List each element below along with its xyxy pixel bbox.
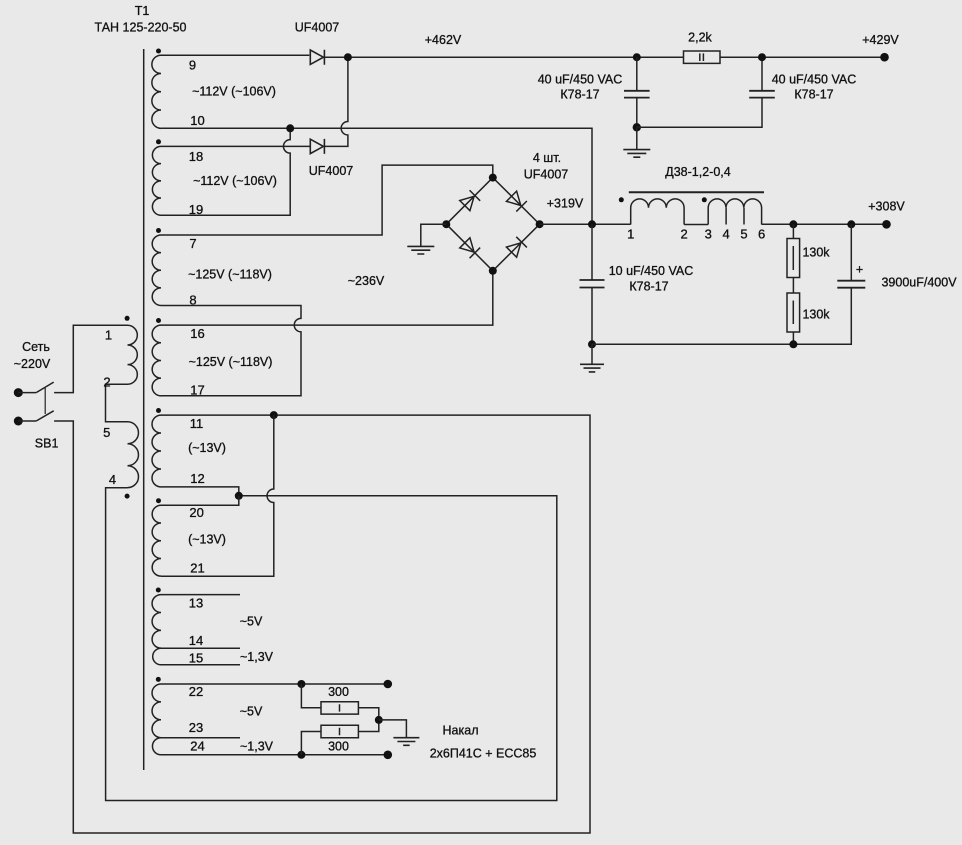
svg-text:~220V: ~220V (14, 357, 51, 371)
svg-text:19: 19 (189, 202, 203, 217)
wire tap 20 up to node B (161, 496, 239, 506)
winding 11-12 (152, 415, 161, 487)
wire tap 9 to diode D1 (161, 54, 309, 56)
wire R300-1 left lead (301, 684, 321, 708)
svg-text:~1,3V: ~1,3V (240, 739, 274, 753)
winding 18 polarity dot (156, 139, 161, 144)
svg-text:+: + (856, 262, 863, 276)
wire mains L1 lead (18, 392, 36, 394)
svg-text:6: 6 (758, 226, 765, 241)
choke winding 1-2 (631, 199, 684, 225)
wire tap 16 to bridge AC bottom (161, 271, 493, 325)
wire D1 cathode to +462V node (324, 56, 348, 58)
svg-text:~5V: ~5V (240, 615, 263, 629)
switch SB1 pole A blade (36, 382, 54, 393)
svg-text:+462V: +462V (425, 33, 462, 47)
wire tap 22 heater line (161, 683, 388, 685)
bridge node bottom (489, 267, 497, 275)
ground at 40uF caps (623, 150, 650, 158)
wire bottom rail ground stem (591, 344, 593, 364)
node +462V D1/D2 junction (344, 53, 352, 61)
svg-text:(~13V): (~13V) (188, 533, 226, 547)
node +319V junction (588, 220, 596, 228)
capacitor 10uF/450VAC K78-17 (580, 280, 605, 288)
ground at heater (393, 738, 419, 746)
svg-text:Сеть: Сеть (22, 340, 50, 354)
svg-text:7: 7 (189, 236, 196, 251)
ground at bottom rail (580, 364, 604, 372)
wire 130k chain bottom lead (792, 332, 794, 344)
primary winding 5-4 (128, 422, 139, 488)
node tap10/tap19 junction (286, 124, 294, 132)
capacitor 40uF/450VAC K78-17 left (624, 91, 650, 98)
winding 16-17 (152, 325, 161, 396)
svg-text:13: 13 (189, 595, 203, 610)
wire switch A to primary pin 1 (54, 325, 127, 392)
node +308V at 3900uF (847, 220, 855, 228)
node A winding 11 top junction (270, 411, 278, 419)
svg-text:2: 2 (103, 374, 110, 389)
svg-text:40 uF/450 VAC: 40 uF/450 VAC (538, 72, 623, 86)
node +308V at 130k (789, 220, 797, 228)
svg-text:16: 16 (190, 326, 204, 341)
svg-text:300: 300 (328, 739, 349, 753)
svg-text:22: 22 (189, 684, 203, 699)
svg-text:2: 2 (680, 226, 687, 241)
mains terminal L2 (14, 417, 23, 426)
winding 16 polarity dot (156, 318, 161, 323)
winding 13 polarity dot (156, 588, 161, 593)
bridge diode upper-right (506, 191, 527, 212)
node heater bottom at R 300 (297, 751, 305, 759)
wire tap 18 to diode D2 anode (161, 145, 310, 147)
svg-text:~125V (~118V): ~125V (~118V) (189, 355, 273, 369)
wire bridge left to ground (421, 224, 447, 246)
svg-text:5: 5 (740, 226, 747, 241)
svg-text:8: 8 (189, 292, 196, 307)
capacitor 40uF/450VAC K78-17 right (749, 91, 775, 98)
wire choke pin 2 to pin 3 (684, 224, 708, 226)
terminal +429V (880, 53, 889, 62)
node cap ground rail (633, 123, 641, 131)
ground at bridge DC- (407, 246, 434, 254)
svg-text:130k: 130k (802, 307, 830, 321)
resistor 130k upper (787, 239, 800, 278)
wire D2 cathode up to +462V node (with hop) (324, 57, 348, 146)
svg-text:130k: 130k (802, 245, 830, 259)
svg-text:SB1: SB1 (35, 437, 59, 451)
svg-text:3: 3 (705, 226, 712, 241)
winding 13-14 (152, 595, 161, 649)
svg-text:+429V: +429V (862, 33, 899, 47)
svg-text:9: 9 (189, 57, 196, 72)
svg-text:4 шт.: 4 шт. (533, 151, 561, 165)
svg-text:300: 300 (328, 685, 349, 699)
node heater top at R 300 (297, 680, 305, 688)
wire C2 top lead (761, 57, 763, 91)
wire cap ground rail to C2 (637, 98, 762, 128)
terminal heater top (384, 680, 393, 689)
svg-text:3900uF/400V: 3900uF/400V (881, 276, 957, 290)
node bottom rail left (588, 340, 596, 348)
svg-text:Д38-1,2-0,4: Д38-1,2-0,4 (665, 165, 730, 179)
choke polarity dot 1 (619, 197, 624, 202)
svg-text:T1: T1 (135, 4, 150, 18)
winding 7-8 (152, 235, 161, 305)
node +462V at C1 (633, 53, 641, 61)
svg-text:21: 21 (190, 560, 204, 575)
svg-text:ТАН 125-220-50: ТАН 125-220-50 (95, 20, 187, 34)
bridge rectifier diamond (446, 178, 539, 271)
wire C1 bottom lead (636, 98, 638, 128)
winding 11 polarity dot (156, 408, 161, 413)
resistor 300 upper (321, 702, 358, 714)
wire tap 19 up to tap 10 junction (with hop) (161, 128, 290, 215)
wire tap 24 heater line (161, 754, 388, 756)
svg-text:12: 12 (190, 471, 204, 486)
capacitor 3900uF/400V (837, 281, 865, 288)
wire C 10uF to bottom rail (591, 288, 593, 345)
wire mains L2 lead (18, 420, 36, 422)
svg-text:К78-17: К78-17 (629, 280, 668, 294)
svg-text:10 uF/450 VAC: 10 uF/450 VAC (609, 264, 694, 278)
wire +462V/+429V rail right of R 2,2k (720, 56, 885, 58)
bridge diode lower-left (460, 238, 481, 259)
winding 22 polarity dot (156, 677, 161, 682)
svg-text:2х6П41С + ЕСС85: 2х6П41С + ЕСС85 (430, 747, 537, 761)
winding 9 polarity dot (156, 49, 161, 54)
transformer T1 core (143, 49, 145, 770)
svg-text:14: 14 (189, 633, 203, 648)
svg-text:~5V: ~5V (240, 705, 263, 719)
svg-text:17: 17 (190, 382, 204, 397)
wire C1 top lead (636, 57, 638, 91)
wire R300-1 right lead (358, 708, 378, 720)
svg-text:24: 24 (190, 739, 204, 754)
svg-text:18: 18 (189, 149, 203, 164)
wire tap 12 down to node B (161, 487, 239, 496)
choke D38-1,2-0,4 core bar (629, 191, 764, 193)
choke winding 3-6 (708, 199, 761, 225)
wire +319V rail to choke pin 1 (540, 223, 631, 225)
resistor 300 lower (321, 725, 358, 737)
wire heater center to ground (379, 720, 407, 738)
wire tap 2 to tap 5 jog (106, 384, 128, 422)
svg-text:~236V: ~236V (348, 274, 385, 288)
winding 23-24 (152, 738, 161, 755)
bridge diode lower-right (506, 237, 527, 258)
wire bottom rail to 3900uF (592, 288, 851, 345)
node B 12-20 junction (235, 492, 243, 500)
bridge node left (DC-) (442, 220, 450, 228)
svg-text:UF4007: UF4007 (295, 20, 340, 34)
svg-text:UF4007: UF4007 (524, 167, 569, 181)
svg-text:2,2k: 2,2k (688, 30, 712, 44)
diode D1 UF4007 (310, 50, 324, 65)
winding 20 polarity dot (156, 498, 161, 503)
winding 22-23 (152, 684, 161, 738)
svg-text:Накал: Накал (443, 724, 479, 738)
svg-text:+308V: +308V (868, 200, 905, 214)
wire tap 21 up to node A (with hop) (161, 415, 274, 576)
primary winding 1-2 (128, 325, 138, 384)
svg-text:4: 4 (109, 472, 116, 487)
svg-text:+319V: +319V (547, 196, 584, 210)
resistor 2,2k (684, 51, 721, 63)
node +429V at C2 (758, 53, 766, 61)
svg-text:~112V (~106V): ~112V (~106V) (192, 84, 276, 98)
winding 14-15 (153, 648, 161, 665)
wire choke pin 6 to +308V (762, 223, 887, 225)
bridge diode upper-left (460, 190, 481, 211)
wire switch B outer loop to node A (winding 11 line) (54, 415, 590, 833)
node heater center tap (375, 716, 383, 724)
bridge node right (DC+) (536, 220, 544, 228)
svg-text:UF4007: UF4007 (309, 164, 354, 178)
winding 20-21 (152, 505, 161, 576)
wire tap 15 stub (161, 664, 240, 666)
resistor 130k lower (787, 293, 800, 332)
svg-text:15: 15 (189, 650, 203, 665)
svg-text:К78-17: К78-17 (794, 87, 833, 101)
wire tap 8 down to tap 17 (with hop) (161, 306, 301, 396)
wire tap 14 stub (161, 647, 240, 649)
svg-text:4: 4 (722, 226, 729, 241)
mains terminal L1 (14, 388, 23, 397)
choke polarity dot 2 (702, 197, 707, 202)
wire tap 7 to bridge AC top (161, 165, 493, 235)
winding 7 polarity dot (156, 228, 161, 233)
wire cap rail ground stem (636, 127, 638, 149)
svg-text:5: 5 (103, 425, 110, 440)
choke pin 5 stub (743, 208, 745, 225)
bridge node top (489, 174, 497, 182)
wire tap 10 line to +319V node (161, 128, 592, 224)
winding 18-19 (152, 146, 161, 215)
primary polarity dot top (125, 316, 130, 321)
switch SB1 gang link (44, 388, 46, 414)
svg-text:20: 20 (189, 505, 203, 520)
wire tap 23 stub (161, 737, 240, 739)
svg-text:11: 11 (190, 416, 204, 431)
svg-text:К78-17: К78-17 (560, 87, 599, 101)
wire primary pin 4 inner loop to node B (12-20 junction) (106, 488, 557, 801)
svg-text:10: 10 (190, 113, 204, 128)
primary polarity dot bottom (125, 494, 130, 499)
svg-text:~1,3V: ~1,3V (240, 650, 274, 664)
diode D2 UF4007 (310, 139, 324, 154)
wire +462V rail left of R 2,2k (348, 56, 684, 58)
wire R300-2 right lead (358, 720, 378, 732)
wire between 130k resistors (792, 278, 794, 294)
winding 9-10 (152, 55, 161, 128)
node bottom rail at 130k (789, 340, 797, 348)
svg-text:23: 23 (189, 720, 203, 735)
terminal heater bottom (384, 751, 393, 760)
wire R300-2 left lead (301, 732, 321, 755)
choke pin 4 stub (725, 208, 727, 225)
svg-text:~125V (~118V): ~125V (~118V) (188, 268, 272, 282)
switch SB1 pole B blade (36, 411, 54, 421)
wire 3900uF top lead (850, 224, 852, 280)
wire 130k chain top lead (792, 224, 794, 238)
svg-text:1: 1 (105, 328, 112, 343)
svg-text:(~13V): (~13V) (188, 441, 226, 455)
svg-text:~112V (~106V): ~112V (~106V) (193, 174, 277, 188)
svg-text:1: 1 (627, 226, 634, 241)
terminal +308V (882, 220, 891, 229)
svg-text:40 uF/450 VAC: 40 uF/450 VAC (772, 72, 857, 86)
wire +319V node down to C 10uF (591, 224, 593, 280)
wire tap 13 stub (161, 594, 240, 596)
